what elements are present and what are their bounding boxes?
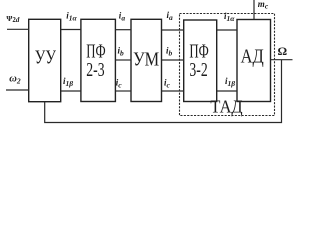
svg-text:3-2: 3-2 bbox=[189, 60, 207, 81]
dashed box ТАД bbox=[180, 14, 275, 116]
svg-text:mc: mc bbox=[258, 0, 269, 10]
svg-text:УМ: УМ bbox=[133, 50, 159, 71]
wire ia УМ-ПФ32 bbox=[162, 29, 184, 31]
svg-text:2-3: 2-3 bbox=[86, 60, 104, 81]
wire feedback bbox=[45, 60, 282, 123]
wire mc input bbox=[253, 0, 255, 20]
wire i1β УУ-ПФ bbox=[61, 90, 81, 92]
svg-text:УУ: УУ bbox=[35, 47, 56, 68]
wire ib ПФ-УМ bbox=[115, 59, 131, 61]
wire ia ПФ-УМ bbox=[115, 29, 131, 31]
wire i1α УУ-ПФ bbox=[61, 29, 81, 31]
block ПФ 2-3 bbox=[81, 19, 116, 101]
wire i1β ПФ32-АД bbox=[217, 90, 237, 92]
block ПФ 3-2 bbox=[184, 20, 217, 102]
wire ic ПФ-УМ bbox=[115, 90, 131, 92]
svg-text:АД: АД bbox=[241, 47, 264, 68]
svg-text:Ω: Ω bbox=[278, 44, 288, 58]
wire ic УМ-ПФ32 bbox=[162, 90, 184, 92]
svg-text:ТАД: ТАД bbox=[210, 97, 242, 117]
block АД bbox=[237, 20, 271, 102]
svg-text:Ψ2d: Ψ2d bbox=[6, 14, 19, 24]
wire ω2 input bbox=[6, 89, 29, 91]
wire ib УМ-ПФ32 bbox=[162, 59, 184, 61]
block УУ bbox=[29, 19, 61, 101]
wire i1α ПФ32-АД bbox=[217, 29, 237, 31]
block УМ bbox=[131, 19, 162, 101]
wire Ω output bbox=[271, 59, 293, 61]
wire Ψ2d input bbox=[7, 28, 29, 30]
